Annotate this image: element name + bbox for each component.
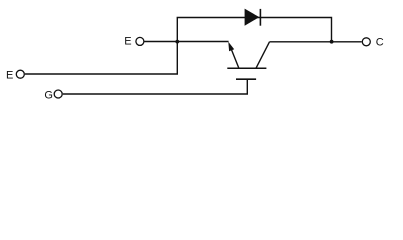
- svg-text:C: C: [376, 37, 384, 49]
- svg-text:E: E: [124, 35, 131, 47]
- svg-text:E: E: [6, 69, 13, 81]
- svg-text:G: G: [44, 89, 53, 101]
